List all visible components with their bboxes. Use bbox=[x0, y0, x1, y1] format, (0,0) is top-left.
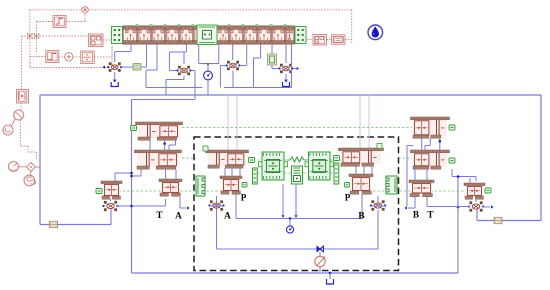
svg-text:B: B bbox=[413, 210, 419, 220]
svg-text:P: P bbox=[345, 193, 351, 203]
svg-text:T: T bbox=[427, 210, 433, 220]
svg-text:B: B bbox=[358, 211, 364, 221]
svg-text:A: A bbox=[175, 211, 182, 221]
svg-text:T: T bbox=[156, 210, 162, 220]
svg-text:P: P bbox=[241, 193, 247, 203]
svg-text:A: A bbox=[224, 211, 231, 221]
